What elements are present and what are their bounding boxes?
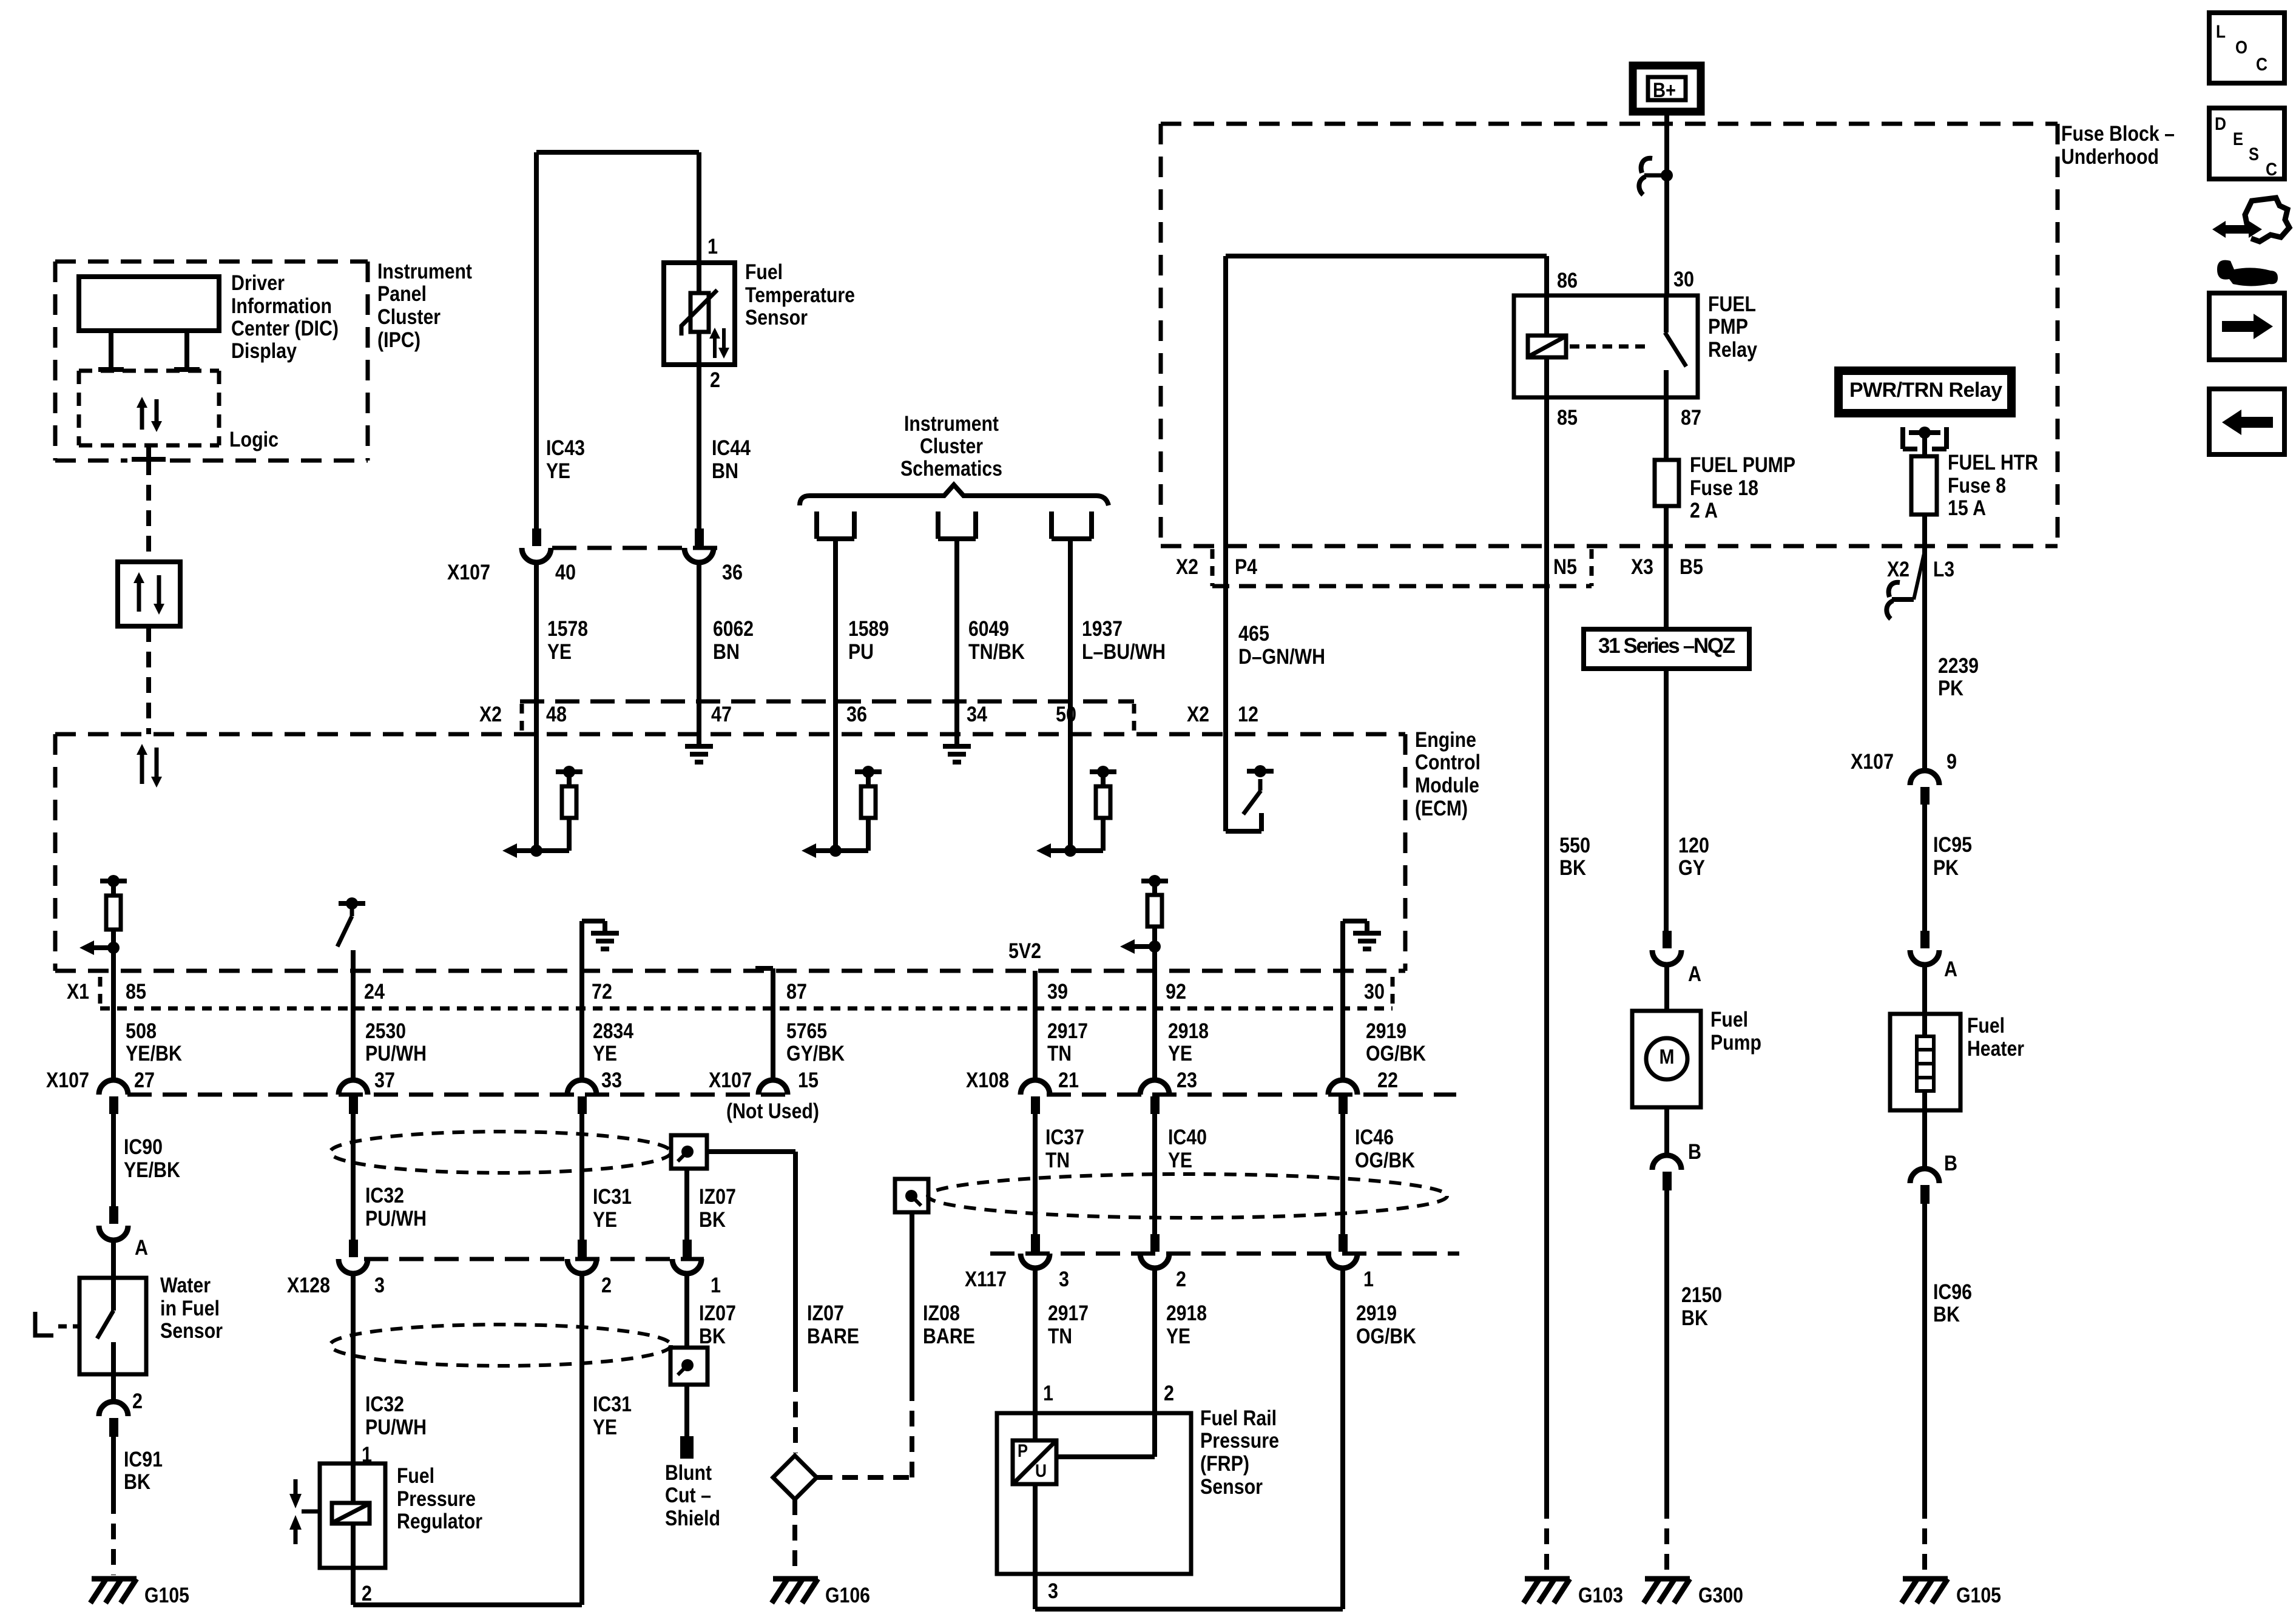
ground G300 [1645, 1576, 1690, 1582]
legend wrench icon [2217, 260, 2278, 286]
svg-text:47: 47 [711, 703, 732, 726]
relay internal dashes [1570, 345, 1652, 349]
svg-text:21: 21 [1058, 1068, 1079, 1092]
legend DESC box [2209, 108, 2284, 179]
wire 550 BK relay85 [1544, 546, 1549, 1503]
ECM pin36 input resistor [833, 734, 838, 851]
svg-text:Blunt: Blunt [665, 1461, 712, 1485]
wire relay 85 to N5 [1544, 397, 1549, 546]
svg-text:X107: X107 [447, 561, 490, 584]
svg-text:39: 39 [1047, 980, 1068, 1004]
wire 2239 PK [1922, 615, 1927, 771]
ECM pin48 input resistor [534, 734, 539, 851]
svg-text:2918: 2918 [1166, 1301, 1207, 1325]
connector X107 pin 37 [339, 1080, 368, 1095]
svg-text:2 A: 2 A [1690, 499, 1718, 522]
svg-text:X108: X108 [966, 1068, 1009, 1092]
svg-text:2918: 2918 [1168, 1019, 1209, 1043]
connector X128 pin 2 [578, 1240, 587, 1257]
connector fuel heater pin A [1920, 931, 1930, 948]
svg-text:IC43: IC43 [546, 436, 585, 460]
svg-text:(IPC): (IPC) [377, 328, 420, 352]
svg-text:Module: Module [1415, 774, 1479, 797]
IPC top rail [536, 150, 699, 155]
legend LOC box [2209, 13, 2284, 83]
dashed serial link lower [146, 626, 151, 734]
relay coil [1544, 295, 1549, 336]
ECM pin24 switch [339, 901, 365, 906]
svg-text:2: 2 [710, 368, 720, 392]
WIF float actuator [35, 1312, 53, 1335]
svg-text:PU/WH: PU/WH [365, 1042, 427, 1065]
wire 465 D-GN/WH from P4 [1223, 546, 1228, 831]
svg-text:9: 9 [1947, 750, 1957, 774]
wire IZ07 BK lower [684, 1272, 689, 1348]
svg-text:22: 22 [1377, 1068, 1398, 1092]
svg-text:(Not Used): (Not Used) [726, 1099, 819, 1123]
svg-text:L3: L3 [1933, 558, 1954, 581]
splice diamond [773, 1456, 817, 1499]
connector row X108 dashes [1047, 1093, 1456, 1097]
svg-text:TN: TN [1047, 1042, 1072, 1065]
svg-text:Heater: Heater [1967, 1037, 2024, 1061]
svg-text:Panel: Panel [377, 282, 427, 306]
wire IC40 YE [1152, 1114, 1157, 1235]
svg-text:IC40: IC40 [1168, 1126, 1207, 1149]
wire IC31 YE upper [579, 1114, 584, 1241]
svg-text:Display: Display [231, 339, 297, 363]
cluster stub 1937 [1049, 511, 1054, 539]
svg-text:2917: 2917 [1048, 1301, 1089, 1325]
svg-text:G106: G106 [825, 1584, 870, 1607]
svg-text:37: 37 [374, 1068, 395, 1092]
svg-text:OG/BK: OG/BK [1366, 1042, 1426, 1065]
svg-text:1: 1 [707, 235, 718, 258]
svg-text:Schematics: Schematics [900, 457, 1002, 481]
connector X108 pin 22 [1328, 1080, 1357, 1095]
svg-text:FUEL HTR: FUEL HTR [1948, 451, 2038, 474]
svg-text:Instrument: Instrument [377, 260, 472, 283]
engine control module dashed box [55, 732, 1405, 737]
svg-text:5V2: 5V2 [1008, 939, 1041, 963]
FRP ground rail [1035, 1607, 1343, 1612]
connector X117 pin 3 [1031, 1234, 1040, 1252]
wire relay 86 feed [1226, 254, 1547, 258]
ECM bottom / X1 row top dashes [55, 969, 1405, 973]
ECM pin50 input resistor [1068, 734, 1073, 851]
sensor B3 fuel rail pressure [997, 1413, 1191, 1574]
svg-text:IZ07: IZ07 [807, 1301, 844, 1325]
svg-text:2150: 2150 [1681, 1283, 1722, 1307]
svg-text:Information: Information [231, 294, 332, 318]
svg-text:YE/BK: YE/BK [126, 1042, 182, 1065]
svg-text:A: A [135, 1236, 148, 1260]
wire 120 GY [1664, 546, 1669, 629]
connector X107 pin 27 [99, 1080, 128, 1095]
relay switch [1664, 295, 1669, 333]
svg-text:Center (DIC): Center (DIC) [231, 317, 339, 340]
svg-text:6049: 6049 [968, 617, 1009, 641]
shield ellipse IZ07 lower [330, 1325, 671, 1366]
FRP internal wires [1033, 1413, 1038, 1440]
battery feed B+ box [1633, 66, 1701, 112]
connector X107 pin 33 [567, 1080, 596, 1095]
ground G106 [773, 1576, 818, 1582]
wire 2918 YE lower [1152, 1267, 1157, 1457]
svg-text:Engine: Engine [1415, 728, 1476, 752]
ECM pin72 internal ground [579, 921, 584, 971]
svg-text:P: P [1018, 1441, 1028, 1461]
svg-text:(ECM): (ECM) [1415, 797, 1468, 820]
svg-text:Fuse 8: Fuse 8 [1948, 474, 2006, 498]
svg-text:2239: 2239 [1938, 654, 1979, 678]
svg-text:2: 2 [1176, 1268, 1186, 1291]
svg-text:15 A: 15 A [1948, 496, 1986, 520]
wire 2919 OG/BK lower [1340, 1267, 1345, 1609]
wire to WIF sensor [111, 1239, 116, 1278]
svg-text:B: B [1688, 1140, 1701, 1164]
wire fuse18 to B5 [1664, 506, 1669, 546]
svg-text:15: 15 [798, 1068, 819, 1092]
svg-text:BK: BK [1681, 1306, 1708, 1330]
svg-text:Instrument: Instrument [904, 412, 999, 436]
logic data arrows [137, 397, 147, 408]
svg-text:85: 85 [126, 980, 146, 1004]
wire IC96 dashed tail [1922, 1503, 1927, 1575]
svg-text:12: 12 [1238, 703, 1258, 726]
svg-text:31 Series –NQZ: 31 Series –NQZ [1598, 634, 1735, 658]
svg-text:YE: YE [546, 459, 570, 483]
connector X117 pin 2 [1150, 1234, 1160, 1252]
svg-text:GY/BK: GY/BK [786, 1042, 845, 1065]
connector fuel pump pin A [1663, 931, 1672, 948]
sensor B1 water in fuel [79, 1278, 146, 1374]
wire IC31 YE lower [579, 1272, 584, 1605]
svg-text:BK: BK [124, 1470, 150, 1494]
svg-text:BK: BK [1933, 1303, 1960, 1326]
svg-text:PK: PK [1933, 856, 1959, 880]
svg-text:Control: Control [1415, 751, 1481, 774]
svg-text:TN: TN [1045, 1149, 1070, 1172]
svg-text:G103: G103 [1578, 1584, 1623, 1607]
svg-text:IZ08: IZ08 [923, 1301, 960, 1325]
svg-text:L–BU/WH: L–BU/WH [1082, 640, 1166, 664]
svg-text:30: 30 [1673, 268, 1694, 291]
svg-text:N5: N5 [1553, 555, 1577, 579]
svg-text:Pressure: Pressure [397, 1487, 476, 1511]
svg-text:G105: G105 [144, 1584, 189, 1607]
legend forward arrow box [2209, 293, 2284, 360]
svg-text:TN: TN [1048, 1325, 1072, 1348]
svg-text:M: M [1660, 1045, 1675, 1068]
svg-text:465: 465 [1238, 622, 1269, 646]
ECM pin47 ground [697, 734, 701, 746]
connector WIF pin A [109, 1206, 118, 1224]
svg-text:87: 87 [1681, 406, 1701, 430]
svg-text:Sensor: Sensor [160, 1319, 223, 1343]
svg-text:PU: PU [848, 640, 874, 664]
wire 2834 YE [579, 971, 584, 1081]
svg-text:85: 85 [1557, 406, 1578, 430]
ground G103 [1525, 1576, 1570, 1582]
svg-text:2834: 2834 [593, 1019, 633, 1043]
connector X107 pin 15 [758, 1080, 788, 1095]
svg-text:OG/BK: OG/BK [1355, 1149, 1415, 1172]
wire PWR/TRN to fuse8 [1922, 433, 1927, 456]
svg-text:BK: BK [699, 1325, 726, 1348]
svg-text:E: E [2233, 129, 2243, 149]
svg-text:IC32: IC32 [365, 1393, 404, 1416]
ECM pin85 input resistor [100, 879, 127, 883]
wire 2530 PU/WH [351, 971, 356, 1081]
connector X128 pin 1 [683, 1240, 692, 1257]
svg-text:L: L [2216, 22, 2226, 42]
wire 5765 GY/BK [755, 966, 773, 971]
svg-text:PMP: PMP [1708, 315, 1748, 339]
wire 1937 L-BU/WH [1068, 539, 1073, 734]
wire IC96 BK [1922, 1204, 1927, 1503]
svg-text:YE: YE [1168, 1149, 1192, 1172]
wire 2917 TN lower [1033, 1267, 1038, 1413]
svg-text:550: 550 [1559, 834, 1590, 857]
brace [800, 485, 1109, 505]
connector row X128 dashes [364, 1257, 704, 1261]
svg-text:Relay: Relay [1708, 338, 1757, 362]
svg-text:40: 40 [555, 561, 576, 584]
relay K1 FUEL PMP box [1514, 295, 1698, 397]
fuse F8 FUEL HTR 15A [1911, 456, 1937, 515]
ECM pin30 internal ground [1340, 921, 1345, 971]
svg-text:O: O [2235, 38, 2247, 58]
PWR/TRN relay bracket [1900, 427, 1905, 449]
svg-text:Fuel: Fuel [1967, 1014, 2005, 1038]
svg-text:X128: X128 [287, 1274, 330, 1297]
svg-text:D: D [2215, 114, 2226, 134]
ECM serial arrows [137, 744, 147, 755]
svg-text:Sensor: Sensor [1200, 1475, 1263, 1499]
svg-text:Logic: Logic [229, 428, 279, 451]
svg-text:Pump: Pump [1710, 1031, 1761, 1055]
shield ellipse IZ07 upper [330, 1132, 671, 1173]
wire IZ07 BK upper [684, 1169, 689, 1241]
shield terminal IZ07 upper [671, 1135, 707, 1169]
connector row X2 P4 / N5 dashed pocket [1210, 549, 1215, 586]
svg-text:1: 1 [1043, 1382, 1053, 1405]
svg-text:A: A [1944, 957, 1957, 981]
svg-text:Cut –: Cut – [665, 1484, 711, 1507]
svg-text:3: 3 [1048, 1579, 1058, 1603]
wire 6049 TN/BK [954, 539, 959, 734]
wire 550 BK dashed tail [1544, 1503, 1549, 1575]
splice ground dashed [792, 1499, 797, 1575]
wire IC32 PU/WH lower [351, 1272, 356, 1463]
cluster stub 6049 [936, 511, 940, 539]
connector X108 pin 21 [1021, 1080, 1050, 1095]
svg-text:2919: 2919 [1366, 1019, 1406, 1043]
heater E1 fuel heater [1890, 1014, 1960, 1110]
svg-text:30: 30 [1364, 980, 1385, 1004]
svg-text:1589: 1589 [848, 617, 889, 641]
svg-text:92: 92 [1166, 980, 1186, 1004]
svg-text:Pressure: Pressure [1200, 1429, 1279, 1453]
connector X108 pin 23 [1140, 1080, 1169, 1095]
connector row X107 40/36 dashes [552, 546, 722, 550]
wire IC32 PU/WH upper [351, 1114, 356, 1241]
svg-text:IC31: IC31 [593, 1393, 632, 1416]
shield drain IZ07 [707, 1149, 795, 1154]
svg-text:2: 2 [132, 1389, 143, 1413]
svg-text:3: 3 [1059, 1268, 1069, 1291]
wire 1578 YE [534, 561, 539, 734]
shield terminal IZ07 lower [670, 1348, 707, 1385]
svg-text:1578: 1578 [547, 617, 588, 641]
svg-text:FUEL: FUEL [1708, 292, 1756, 316]
svg-text:A: A [1688, 962, 1701, 986]
wire IC91 dashed tail [111, 1498, 116, 1575]
svg-text:34: 34 [967, 703, 987, 726]
svg-text:3: 3 [374, 1274, 385, 1297]
svg-text:U: U [1035, 1461, 1047, 1481]
svg-text:Fuel Rail: Fuel Rail [1200, 1406, 1277, 1430]
svg-text:Underhood: Underhood [2061, 145, 2159, 169]
svg-text:Fuse 18: Fuse 18 [1690, 476, 1758, 500]
svg-text:Sensor: Sensor [745, 306, 808, 329]
svg-text:Fuse Block –: Fuse Block – [2061, 122, 2175, 146]
shield terminal IZ08 [895, 1179, 928, 1212]
svg-text:6062: 6062 [713, 617, 754, 641]
motor M1 fuel pump [1632, 1011, 1701, 1107]
connector X117 pin 1 [1339, 1234, 1348, 1252]
shield ellipse IZ08 [928, 1174, 1447, 1218]
dashed serial link upper [146, 459, 151, 562]
splice hook on B+ feed [1641, 158, 1652, 173]
svg-text:FUEL PUMP: FUEL PUMP [1690, 453, 1795, 477]
svg-text:48: 48 [546, 703, 567, 726]
svg-text:YE: YE [593, 1208, 617, 1232]
wire IC91 BK [111, 1437, 116, 1498]
cluster stub 1589 [814, 511, 819, 539]
svg-text:72: 72 [592, 980, 612, 1004]
svg-text:36: 36 [722, 561, 743, 584]
svg-text:S: S [2249, 144, 2259, 164]
svg-text:24: 24 [364, 980, 385, 1004]
connector row X2 dashed band [520, 700, 1134, 704]
svg-text:33: 33 [601, 1068, 622, 1092]
svg-text:C: C [2266, 160, 2277, 180]
svg-text:X2: X2 [1176, 555, 1198, 579]
solenoid fuel pressure regulator [320, 1463, 385, 1568]
svg-text:X2: X2 [479, 703, 502, 726]
svg-text:1937: 1937 [1082, 617, 1123, 641]
wire to heater [1922, 964, 1927, 1014]
ground G105 right [1903, 1576, 1948, 1582]
inline connector symbol at X2 L3 [1914, 551, 1925, 599]
svg-text:IZ07: IZ07 [699, 1301, 736, 1325]
callout 31 Series -NQZ [1584, 629, 1749, 669]
svg-text:TN/BK: TN/BK [968, 640, 1025, 664]
relay PWR/TRN label box [1838, 371, 2011, 413]
svg-text:IC95: IC95 [1933, 833, 1972, 857]
instrument panel cluster dashed box [55, 260, 368, 264]
svg-text:OG/BK: OG/BK [1356, 1325, 1416, 1348]
wire to pump [1664, 964, 1669, 1011]
svg-text:G105: G105 [1956, 1584, 2001, 1607]
svg-text:23: 23 [1177, 1068, 1197, 1092]
svg-text:1: 1 [711, 1274, 721, 1297]
DIC legs [109, 331, 113, 370]
svg-text:D–GN/WH: D–GN/WH [1238, 645, 1325, 669]
serial data translator box [118, 562, 180, 626]
svg-text:2: 2 [362, 1582, 372, 1605]
svg-text:Shield: Shield [665, 1507, 720, 1530]
svg-text:BK: BK [699, 1208, 726, 1232]
wire 1589 PU [833, 539, 838, 734]
wire 2150 BK dashed tail [1664, 1503, 1669, 1575]
fuse block - underhood dashed box [1161, 122, 2058, 126]
wire 2917 TN [1033, 971, 1038, 1081]
svg-text:Driver: Driver [231, 271, 285, 295]
connector row X107 dashes [127, 1093, 789, 1097]
svg-text:YE: YE [547, 640, 572, 664]
svg-text:86: 86 [1557, 269, 1578, 292]
svg-text:BN: BN [712, 459, 738, 483]
svg-text:5765: 5765 [786, 1019, 827, 1043]
svg-text:BK: BK [1559, 856, 1586, 880]
wire IC90 YE/BK [111, 1114, 116, 1206]
svg-text:2919: 2919 [1356, 1301, 1397, 1325]
svg-text:IC37: IC37 [1045, 1126, 1084, 1149]
svg-text:YE: YE [593, 1042, 617, 1065]
svg-text:GY: GY [1678, 856, 1705, 880]
connector row X1 [98, 977, 103, 1006]
svg-text:PWR/TRN Relay: PWR/TRN Relay [1849, 379, 2002, 402]
svg-text:X107: X107 [46, 1068, 89, 1092]
svg-text:IC90: IC90 [124, 1135, 163, 1159]
svg-text:Fuel: Fuel [1710, 1008, 1748, 1031]
svg-text:YE: YE [593, 1416, 617, 1439]
svg-text:PU/WH: PU/WH [365, 1207, 427, 1230]
wire 2918 YE [1152, 947, 1157, 1081]
display DIC box [79, 277, 219, 331]
svg-text:36: 36 [846, 703, 867, 726]
svg-text:BARE: BARE [807, 1325, 859, 1348]
svg-text:2: 2 [601, 1274, 612, 1297]
wire relay 87 to fuse [1664, 397, 1669, 460]
wire fuse8 to L3 [1922, 515, 1927, 615]
wire FPR return loop [351, 1568, 356, 1605]
svg-text:IC96: IC96 [1933, 1280, 1972, 1304]
svg-text:PK: PK [1938, 677, 1963, 700]
svg-text:87: 87 [786, 980, 807, 1004]
svg-text:Temperature: Temperature [745, 283, 855, 307]
svg-text:X1: X1 [67, 980, 89, 1004]
svg-text:B+: B+ [1653, 79, 1676, 102]
svg-text:BARE: BARE [923, 1325, 975, 1348]
wire B+ to relay pin 30 [1664, 112, 1669, 295]
svg-text:120: 120 [1678, 834, 1709, 857]
wire IC95 PK [1922, 805, 1927, 931]
svg-text:G300: G300 [1698, 1584, 1743, 1607]
svg-text:YE: YE [1168, 1042, 1192, 1065]
connector X128 pin 3 [349, 1240, 358, 1257]
svg-text:1: 1 [1363, 1268, 1374, 1291]
svg-text:27: 27 [134, 1068, 155, 1092]
regulator valve arrows [294, 1479, 298, 1494]
svg-text:508: 508 [126, 1019, 157, 1043]
wire 120 GY cont [1664, 669, 1669, 931]
wire 2919 OG/BK [1340, 971, 1345, 1081]
IPC case tick [146, 445, 151, 459]
